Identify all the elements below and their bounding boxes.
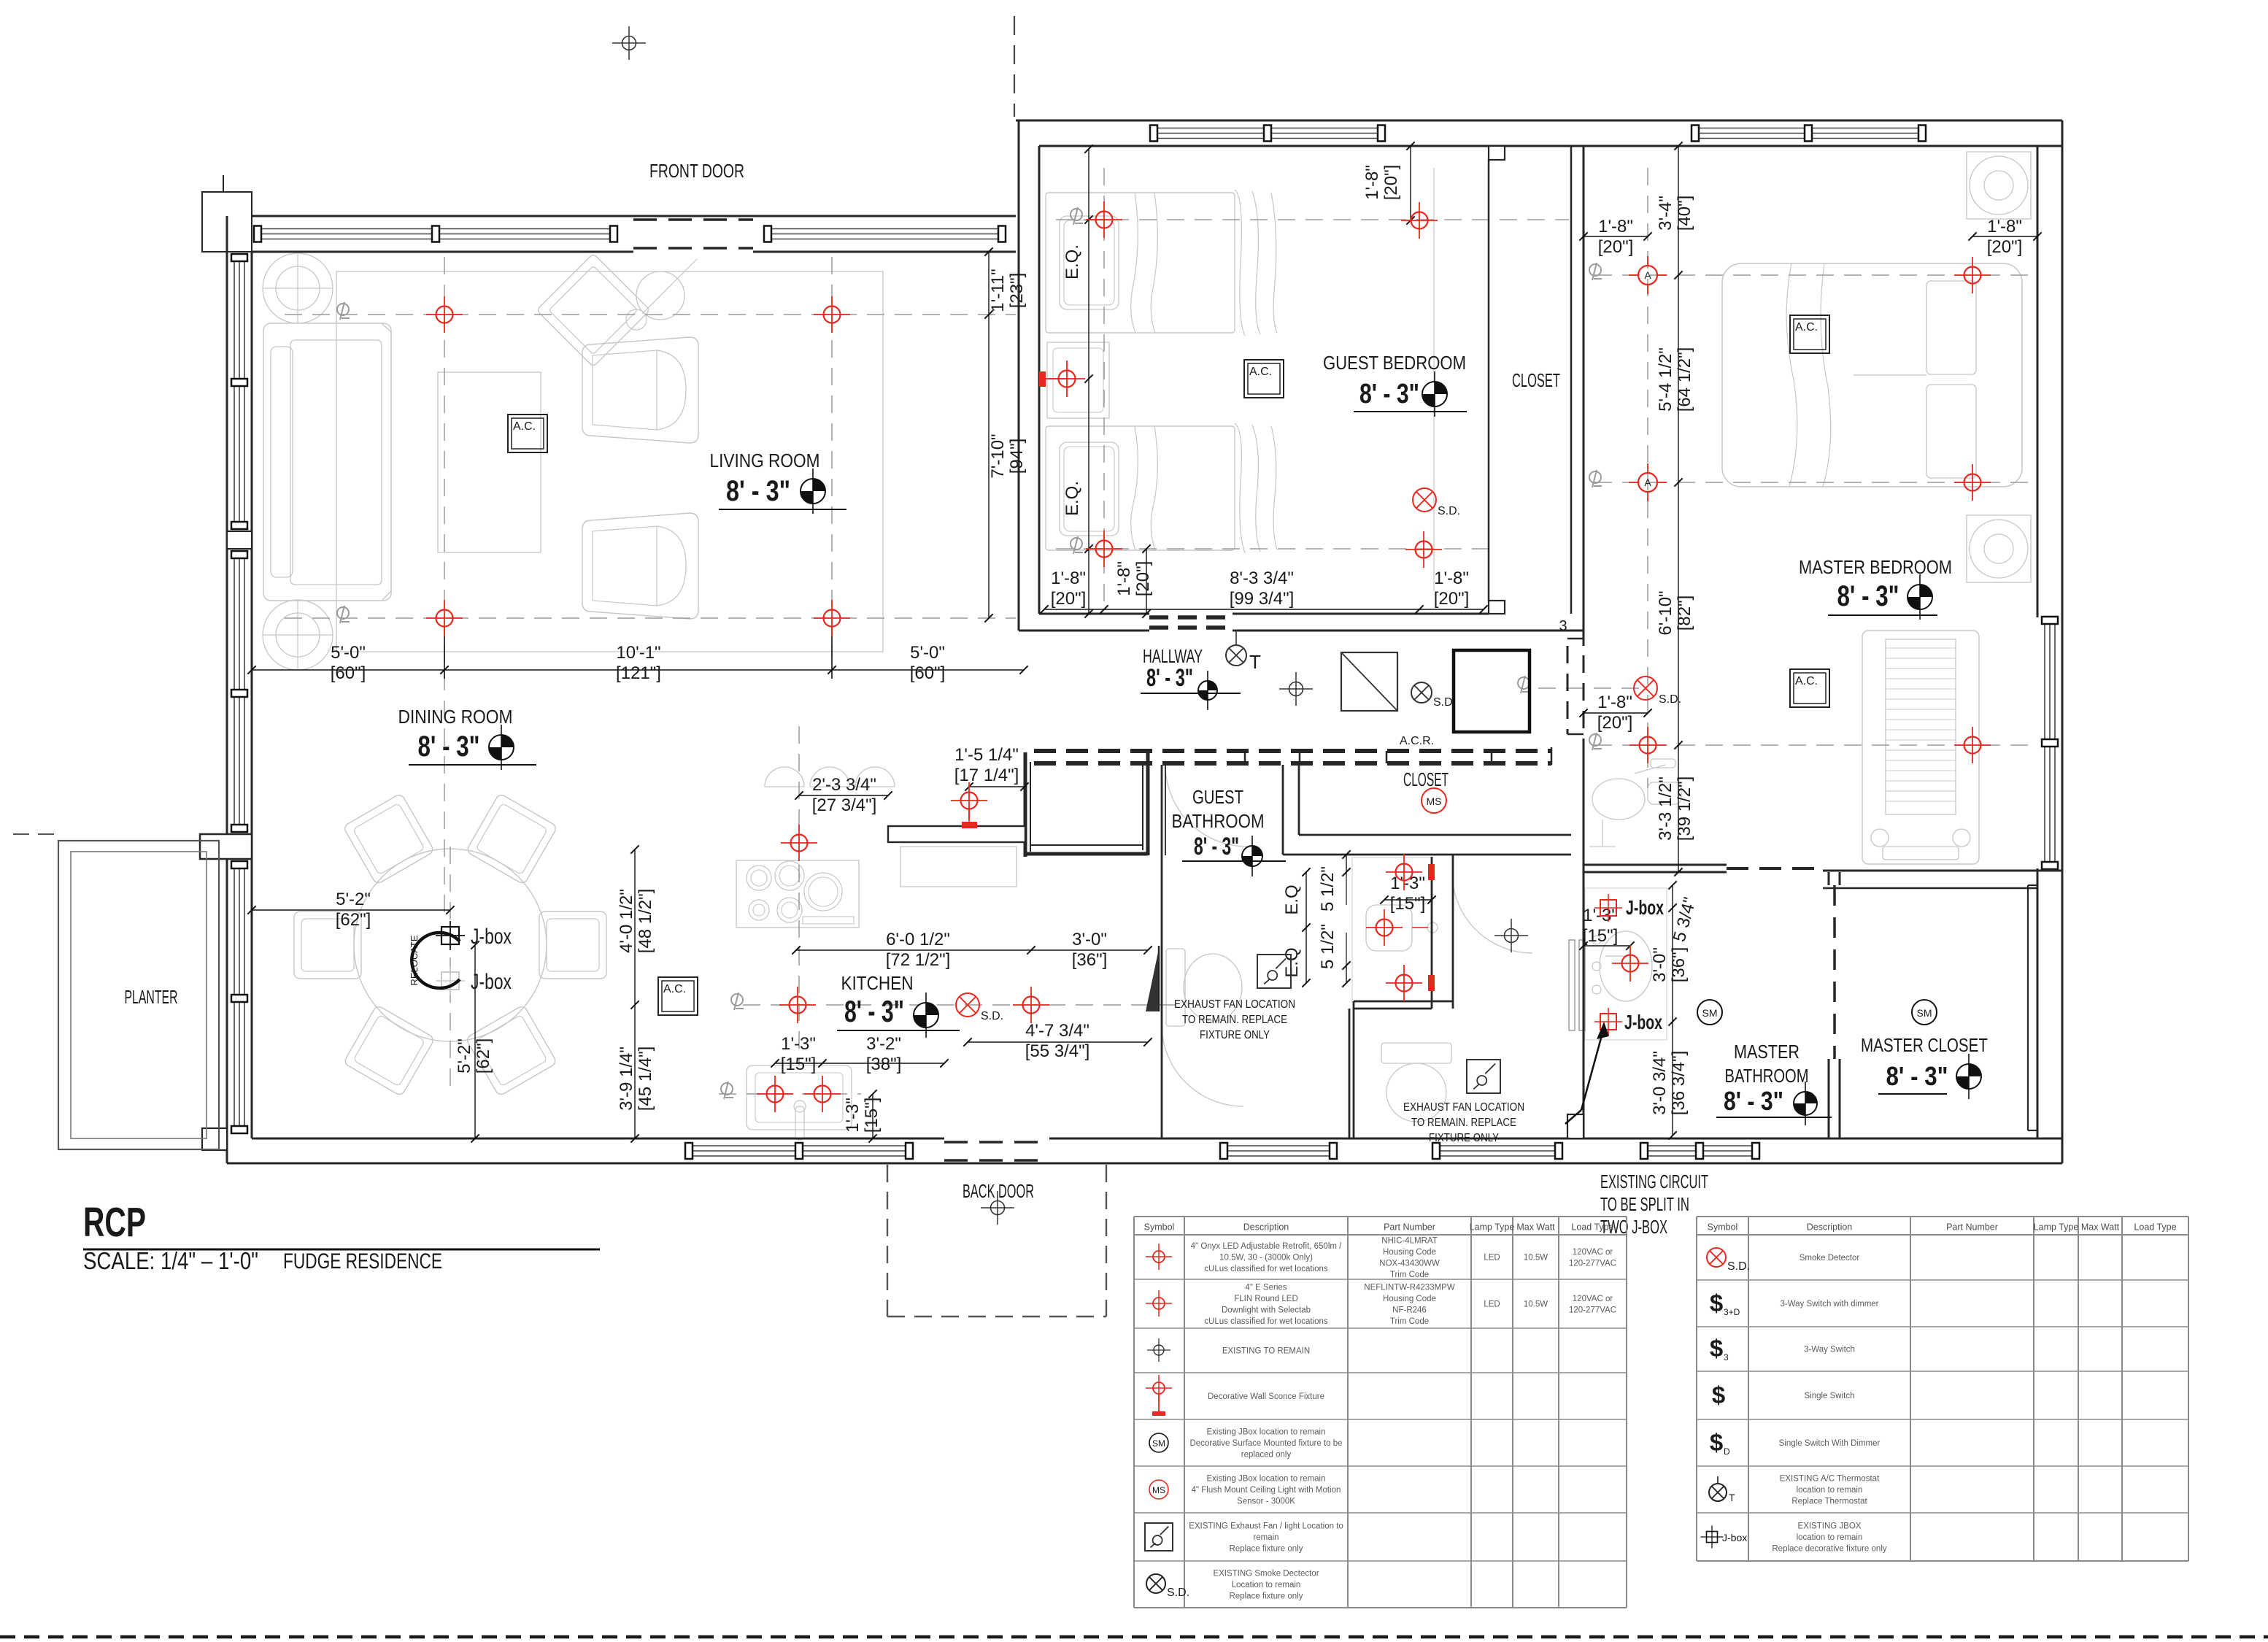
svg-text:Existing JBox location to rema: Existing JBox location to remain bbox=[1207, 1475, 1326, 1484]
svg-text:8' - 3": 8' - 3" bbox=[1886, 1061, 1948, 1091]
acr box bbox=[1341, 652, 1397, 711]
master bedroom south wall bbox=[1584, 864, 1727, 866]
guest vanity bbox=[1352, 857, 1432, 1002]
svg-text:MASTER: MASTER bbox=[1734, 1041, 1800, 1063]
left wall bbox=[226, 216, 228, 1163]
left wall pier bbox=[200, 834, 252, 859]
wall pier wc/master bath bbox=[1567, 1114, 1584, 1138]
guest bath vanity fixtures bbox=[1386, 854, 1422, 890]
svg-text:[82"]: [82"] bbox=[1675, 595, 1694, 631]
svg-text:Decorative Wall Sconce Fixture: Decorative Wall Sconce Fixture bbox=[1208, 1392, 1324, 1401]
window W2 front bbox=[765, 228, 1005, 230]
svg-text:PLANTER: PLANTER bbox=[125, 986, 178, 1008]
svg-text:replaced only: replaced only bbox=[1241, 1451, 1292, 1460]
svg-text:3'-0": 3'-0" bbox=[1650, 947, 1670, 982]
guest top right dim bbox=[1410, 146, 1411, 220]
svg-text:[62"]: [62"] bbox=[474, 1038, 493, 1074]
svg-text:Replace decorative fixture onl: Replace decorative fixture only bbox=[1772, 1545, 1886, 1554]
guest bed 2 bbox=[1046, 426, 1235, 550]
svg-text:[36"]: [36"] bbox=[1072, 950, 1108, 970]
guest bedroom east wall bbox=[1570, 146, 1573, 614]
master fixtures bbox=[1954, 257, 1991, 293]
svg-text:FRONT DOOR: FRONT DOOR bbox=[649, 160, 744, 182]
cooktop bbox=[736, 860, 859, 928]
svg-text:8' - 3": 8' - 3" bbox=[1146, 664, 1193, 692]
armchair 1 bbox=[582, 337, 698, 443]
window W8 left lower bbox=[234, 862, 235, 1133]
svg-text:MASTER BEDROOM: MASTER BEDROOM bbox=[1799, 556, 1952, 578]
svg-text:8' - 3": 8' - 3" bbox=[726, 475, 790, 507]
exhaust fan boxes bbox=[1257, 955, 1291, 988]
front door dashed opening bbox=[633, 218, 753, 220]
guest nightstand bbox=[1047, 342, 1109, 418]
hallway existing fixture bbox=[1279, 672, 1313, 706]
guest bath toilet bbox=[1166, 949, 1185, 1026]
planter bbox=[58, 841, 219, 1149]
svg-text:T: T bbox=[1729, 1492, 1735, 1503]
svg-text:[20"]: [20"] bbox=[1987, 237, 2023, 257]
svg-text:[45 1/4"]: [45 1/4"] bbox=[636, 1047, 655, 1111]
svg-text:3'-2": 3'-2" bbox=[866, 1034, 901, 1054]
svg-text:Trim Code: Trim Code bbox=[1390, 1271, 1429, 1279]
bottom wall bbox=[227, 1163, 2062, 1165]
svg-text:KITCHEN: KITCHEN bbox=[841, 972, 914, 994]
svg-text:MASTER CLOSET: MASTER CLOSET bbox=[1861, 1034, 1988, 1056]
kitchen alcove walls bbox=[1024, 752, 1027, 857]
svg-text:5'-0": 5'-0" bbox=[331, 643, 366, 663]
svg-text:5 1/2": 5 1/2" bbox=[1318, 866, 1338, 911]
svg-text:120-277VAC: 120-277VAC bbox=[1569, 1259, 1616, 1268]
window W12 bottom master bath bbox=[1641, 1145, 1759, 1146]
svg-text:8' - 3": 8' - 3" bbox=[844, 994, 904, 1028]
svg-text:[60"]: [60"] bbox=[331, 663, 366, 683]
svg-text:Load Type: Load Type bbox=[1571, 1222, 1613, 1233]
svg-text:1'-8": 1'-8" bbox=[1362, 165, 1382, 200]
svg-text:10'-1": 10'-1" bbox=[616, 643, 660, 663]
master bath closet door dashed bbox=[1833, 885, 1836, 1059]
svg-text:Max Watt: Max Watt bbox=[2081, 1222, 2120, 1233]
guest bathroom west wall bbox=[1161, 765, 1163, 1138]
svg-text:[20"]: [20"] bbox=[1051, 589, 1087, 609]
svg-text:EXHAUST FAN LOCATION: EXHAUST FAN LOCATION bbox=[1403, 1101, 1524, 1114]
dining J-box bbox=[436, 921, 465, 950]
svg-text:EXISTING TO REMAIN: EXISTING TO REMAIN bbox=[1222, 1347, 1310, 1356]
coffee table bbox=[438, 372, 541, 552]
svg-text:[20"]: [20"] bbox=[1598, 237, 1634, 257]
master bed bbox=[1722, 263, 2022, 487]
svg-text:1'-5 1/4": 1'-5 1/4" bbox=[954, 745, 1019, 765]
master bath dims bbox=[1584, 945, 1630, 947]
thermostat bbox=[1226, 645, 1246, 666]
svg-text:EXISTING Exhaust Fan / light L: EXISTING Exhaust Fan / light Location to bbox=[1189, 1522, 1343, 1531]
svg-text:E.Q.: E.Q. bbox=[1062, 244, 1082, 280]
fan circle bottom-left bbox=[263, 600, 333, 670]
svg-text:Description: Description bbox=[1807, 1222, 1853, 1233]
svg-text:Max Watt: Max Watt bbox=[1516, 1222, 1555, 1233]
svg-text:Part Number: Part Number bbox=[1384, 1222, 1435, 1233]
svg-text:1'-3": 1'-3" bbox=[843, 1098, 863, 1133]
guest bottom dim row bbox=[1044, 609, 1484, 610]
kitchen counter bar bbox=[888, 826, 1025, 842]
svg-text:TO REMAIN. REPLACE: TO REMAIN. REPLACE bbox=[1411, 1117, 1516, 1129]
svg-text:NF-R246: NF-R246 bbox=[1392, 1306, 1427, 1314]
fan circle top-left bbox=[263, 253, 333, 323]
svg-text:[38"]: [38"] bbox=[866, 1055, 902, 1074]
guest bed 1 bbox=[1046, 193, 1235, 333]
svg-text:Lamp Type: Lamp Type bbox=[2034, 1222, 2079, 1233]
svg-text:cULus classified for wet locat: cULus classified for wet locations bbox=[1204, 1265, 1328, 1273]
back door patio dashed bbox=[887, 1165, 888, 1317]
svg-text:[64 1/2"]: [64 1/2"] bbox=[1675, 347, 1694, 412]
CL living top row bbox=[285, 314, 1016, 315]
svg-text:3'-0": 3'-0" bbox=[1072, 930, 1107, 949]
svg-text:BATHROOM: BATHROOM bbox=[1725, 1065, 1809, 1087]
relocate arc bbox=[412, 933, 460, 988]
svg-text:GUEST: GUEST bbox=[1192, 786, 1243, 808]
svg-text:4" Flush Mount Ceiling Light w: 4" Flush Mount Ceiling Light with Motion bbox=[1192, 1486, 1341, 1495]
svg-text:Symbol: Symbol bbox=[1144, 1222, 1175, 1233]
master A fixtures bbox=[1629, 256, 1667, 294]
svg-text:Replace Thermostat: Replace Thermostat bbox=[1791, 1498, 1867, 1506]
wc toilet bbox=[1381, 1043, 1451, 1063]
t2 symbols bbox=[1707, 1248, 1750, 1273]
svg-text:3'-4": 3'-4" bbox=[1656, 196, 1675, 231]
guest bedroom fixtures bbox=[1086, 201, 1122, 238]
svg-text:NHIC-4LMRAT: NHIC-4LMRAT bbox=[1381, 1236, 1437, 1245]
svg-text:E.Q: E.Q bbox=[1282, 884, 1302, 914]
svg-text:$: $ bbox=[1710, 1429, 1723, 1456]
LR fixtures bbox=[426, 296, 463, 333]
svg-text:Location to remain: Location to remain bbox=[1232, 1581, 1301, 1589]
MS motion sensor bbox=[1422, 788, 1446, 813]
svg-text:3: 3 bbox=[1724, 1352, 1729, 1362]
hall-master door dashed bbox=[1567, 638, 1584, 640]
kitchen sconce bbox=[962, 822, 977, 828]
svg-text:4" E Series: 4" E Series bbox=[1245, 1283, 1287, 1292]
master closet interior wall bbox=[2027, 885, 2029, 1130]
svg-text:4" Onyx LED Adjustable Retrofi: 4" Onyx LED Adjustable Retrofit, 650lm / bbox=[1191, 1242, 1343, 1251]
svg-text:5'-2": 5'-2" bbox=[455, 1038, 474, 1074]
CL guest rows bbox=[1056, 219, 1569, 220]
svg-text:A: A bbox=[1644, 269, 1651, 281]
svg-text:TO BE SPLIT IN: TO BE SPLIT IN bbox=[1600, 1193, 1689, 1215]
svg-text:3'-9 1/4": 3'-9 1/4" bbox=[617, 1047, 636, 1111]
svg-text:[27 3/4"]: [27 3/4"] bbox=[812, 795, 877, 815]
guest closet partition bbox=[1488, 160, 1490, 601]
svg-text:EXISTING CIRCUIT: EXISTING CIRCUIT bbox=[1600, 1171, 1708, 1192]
nightstand top bbox=[1967, 152, 2031, 219]
svg-text:[62"]: [62"] bbox=[336, 910, 371, 930]
guest bedroom south wall bbox=[1019, 630, 1149, 632]
svg-text:A.C.: A.C. bbox=[513, 420, 536, 433]
svg-text:BACK DOOR: BACK DOOR bbox=[963, 1180, 1034, 1202]
svg-text:Single Switch: Single Switch bbox=[1804, 1392, 1854, 1400]
svg-text:[20"]: [20"] bbox=[1133, 561, 1153, 597]
kitchen dims bbox=[799, 795, 888, 796]
svg-text:Housing Code: Housing Code bbox=[1383, 1248, 1436, 1257]
svg-text:[36 3/4"]: [36 3/4"] bbox=[1669, 1051, 1689, 1116]
svg-text:GUEST BEDROOM: GUEST BEDROOM bbox=[1323, 352, 1466, 374]
svg-text:1'-3": 1'-3" bbox=[781, 1034, 816, 1054]
svg-text:1'-8": 1'-8" bbox=[1987, 217, 2022, 236]
svg-text:10.5W: 10.5W bbox=[1524, 1300, 1548, 1309]
svg-text:4'-7 3/4": 4'-7 3/4" bbox=[1025, 1021, 1089, 1041]
window W11 bottom bbox=[1433, 1145, 1562, 1146]
sofa bbox=[263, 323, 391, 601]
dining dims bbox=[252, 909, 450, 911]
svg-text:LED: LED bbox=[1484, 1300, 1500, 1309]
master bath fixture bbox=[1612, 945, 1648, 982]
svg-text:$: $ bbox=[1710, 1290, 1723, 1317]
svg-text:1'-8": 1'-8" bbox=[1114, 561, 1134, 596]
window W10 bottom bbox=[1221, 1145, 1336, 1146]
svg-text:Downlight with Selectab: Downlight with Selectab bbox=[1222, 1306, 1311, 1314]
svg-text:[48 1/2"]: [48 1/2"] bbox=[636, 889, 655, 954]
svg-text:T: T bbox=[1249, 651, 1261, 673]
svg-text:[55 3/4"]: [55 3/4"] bbox=[1025, 1041, 1090, 1061]
guest bath dims bbox=[1384, 899, 1432, 901]
treadmill bbox=[1862, 631, 1979, 864]
guest bath closet west wall bbox=[1282, 765, 1284, 855]
LR bottom dim row bbox=[252, 669, 1024, 671]
svg-text:[20"]: [20"] bbox=[1381, 165, 1401, 201]
guest bedroom door dashed bbox=[1149, 615, 1233, 620]
master west wall upper bbox=[1583, 146, 1585, 646]
left wall mid rail bbox=[227, 531, 252, 549]
svg-text:S.D.: S.D. bbox=[1167, 1587, 1189, 1599]
svg-text:8' - 3": 8' - 3" bbox=[1194, 833, 1239, 860]
guest bath closet south wall bbox=[1283, 854, 1571, 856]
svg-text:Load Type: Load Type bbox=[2134, 1222, 2176, 1233]
kitchen fixtures bbox=[781, 825, 817, 861]
svg-text:Symbol: Symbol bbox=[1708, 1222, 1738, 1233]
dining ghost J-box bbox=[436, 966, 465, 995]
svg-text:3-Way Switch with dimmer: 3-Way Switch with dimmer bbox=[1780, 1300, 1878, 1308]
exercise bike bbox=[1589, 759, 1681, 847]
hallway south double-dashed wall bbox=[1034, 749, 1551, 753]
svg-text:A.C.: A.C. bbox=[1249, 366, 1272, 378]
chaise diagonal bbox=[536, 253, 650, 367]
interior wall living/guest bbox=[1018, 120, 1020, 631]
svg-text:[99 3/4"]: [99 3/4"] bbox=[1230, 589, 1295, 609]
svg-text:Sensor - 3000K: Sensor - 3000K bbox=[1237, 1498, 1295, 1506]
svg-text:LED: LED bbox=[1484, 1254, 1500, 1263]
svg-text:1'-8": 1'-8" bbox=[1597, 693, 1632, 712]
guest EQ dim line bbox=[1088, 149, 1089, 614]
svg-text:[121"]: [121"] bbox=[616, 663, 661, 683]
back door existing fixture bbox=[981, 1191, 1014, 1225]
bottom-left pier bbox=[202, 1128, 227, 1150]
svg-text:J-box: J-box bbox=[1626, 896, 1664, 919]
window W3 guest bedroom bbox=[1151, 128, 1384, 129]
svg-text:location to remain: location to remain bbox=[1797, 1486, 1863, 1495]
CL master rows bbox=[1594, 274, 2029, 276]
svg-text:Part Number: Part Number bbox=[1946, 1222, 1998, 1233]
right wall bbox=[2061, 120, 2064, 1163]
svg-text:Single Switch With Dimmer: Single Switch With Dimmer bbox=[1779, 1439, 1881, 1448]
nightstand bottom bbox=[1967, 515, 2031, 582]
svg-text:EXISTING JBOX: EXISTING JBOX bbox=[1798, 1522, 1862, 1531]
svg-text:1'-11": 1'-11" bbox=[988, 269, 1008, 312]
door arcs bbox=[1162, 1025, 1243, 1106]
svg-text:8'-3 3/4": 8'-3 3/4" bbox=[1230, 568, 1294, 588]
svg-text:10.5W: 10.5W bbox=[1524, 1254, 1548, 1263]
svg-text:J-box: J-box bbox=[471, 925, 512, 949]
svg-text:7'-10": 7'-10" bbox=[988, 433, 1008, 478]
svg-text:NOX-43430WW: NOX-43430WW bbox=[1379, 1259, 1440, 1268]
svg-text:SM: SM bbox=[1152, 1438, 1165, 1449]
svg-text:120VAC or: 120VAC or bbox=[1573, 1295, 1613, 1303]
svg-text:3'-0 3/4": 3'-0 3/4" bbox=[1650, 1051, 1670, 1115]
svg-text:120VAC or: 120VAC or bbox=[1573, 1248, 1613, 1257]
svg-text:location to remain: location to remain bbox=[1797, 1533, 1863, 1542]
svg-text:A: A bbox=[1644, 477, 1651, 488]
master bath J-boxes bbox=[1594, 894, 1622, 922]
svg-text:FLIN Round LED: FLIN Round LED bbox=[1234, 1295, 1298, 1303]
svg-text:Replace fixture only: Replace fixture only bbox=[1230, 1592, 1303, 1601]
svg-text:1'-8": 1'-8" bbox=[1051, 568, 1086, 588]
svg-text:[15"]: [15"] bbox=[862, 1098, 882, 1133]
window W6 left upper bbox=[234, 255, 235, 528]
t1 symbols bbox=[1146, 1244, 1172, 1270]
svg-text:[36"]: [36"] bbox=[1669, 947, 1689, 983]
svg-text:1'-3": 1'-3" bbox=[1390, 874, 1425, 893]
svg-text:A.C.: A.C. bbox=[1795, 321, 1818, 334]
svg-text:3+D: 3+D bbox=[1724, 1307, 1740, 1317]
svg-text:5'-0": 5'-0" bbox=[910, 643, 945, 663]
CL kitchen row bbox=[743, 1004, 1179, 1006]
svg-text:1'-8": 1'-8" bbox=[1598, 217, 1633, 236]
svg-text:[15"]: [15"] bbox=[1390, 894, 1426, 914]
CL sink row bbox=[719, 1093, 861, 1095]
svg-text:S.D.: S.D. bbox=[1438, 505, 1460, 517]
armchair 2 bbox=[582, 513, 698, 619]
CL living bottom row bbox=[285, 617, 1016, 619]
svg-text:Description: Description bbox=[1243, 1222, 1289, 1233]
master SD bbox=[1634, 677, 1681, 706]
svg-text:FIXTURE ONLY: FIXTURE ONLY bbox=[1200, 1029, 1270, 1041]
svg-text:BATHROOM: BATHROOM bbox=[1172, 810, 1265, 832]
kitchen island bbox=[900, 847, 1017, 887]
svg-text:8' - 3": 8' - 3" bbox=[1724, 1086, 1783, 1116]
svg-text:6'-10": 6'-10" bbox=[1656, 590, 1675, 635]
svg-text:[15"]: [15"] bbox=[1583, 926, 1619, 946]
svg-text:2'-3 3/4": 2'-3 3/4" bbox=[812, 775, 876, 795]
svg-text:120-277VAC: 120-277VAC bbox=[1569, 1306, 1616, 1314]
svg-text:SM: SM bbox=[1917, 1007, 1932, 1019]
svg-text:remain: remain bbox=[1253, 1533, 1278, 1542]
svg-text:8' - 3": 8' - 3" bbox=[1837, 580, 1899, 612]
guest SD bbox=[1413, 488, 1460, 517]
svg-text:Trim Code: Trim Code bbox=[1390, 1317, 1429, 1326]
master hallway dim bbox=[1584, 712, 1648, 714]
SM symbols bbox=[1697, 1000, 1722, 1025]
page bottom dashed line bbox=[0, 1635, 2268, 1639]
AC boxes bbox=[508, 415, 547, 452]
svg-text:cULus classified for wet locat: cULus classified for wet locations bbox=[1204, 1317, 1328, 1326]
svg-text:6'-0 1/2": 6'-0 1/2" bbox=[886, 930, 950, 949]
svg-text:SCALE: 1/4" – 1'-0": SCALE: 1/4" – 1'-0" bbox=[83, 1247, 258, 1274]
svg-text:5 1/2": 5 1/2" bbox=[1318, 924, 1338, 969]
svg-text:Replace fixture only: Replace fixture only bbox=[1230, 1545, 1303, 1554]
door wedge kitchen-guest bath bbox=[1146, 949, 1159, 1011]
master vertical dim bbox=[1678, 146, 1679, 872]
legend table 2 bbox=[1697, 1216, 2188, 1217]
svg-text:EXISTING Smoke Dectector: EXISTING Smoke Dectector bbox=[1213, 1570, 1319, 1579]
svg-text:FIXTURE ONLY: FIXTURE ONLY bbox=[1429, 1132, 1499, 1144]
svg-text:J-box: J-box bbox=[1722, 1532, 1747, 1543]
svg-text:8' - 3": 8' - 3" bbox=[418, 731, 480, 763]
top existing fixture bbox=[612, 26, 646, 60]
master right dim bbox=[1972, 236, 2037, 237]
LR vertical dim bbox=[988, 252, 990, 618]
svg-text:[17 1/4"]: [17 1/4"] bbox=[954, 766, 1019, 785]
svg-text:[60"]: [60"] bbox=[910, 663, 946, 683]
svg-text:A.C.: A.C. bbox=[663, 983, 686, 995]
svg-text:[39 1/2"]: [39 1/2"] bbox=[1675, 776, 1694, 841]
svg-text:$: $ bbox=[1710, 1335, 1723, 1362]
svg-text:[40"]: [40"] bbox=[1675, 196, 1694, 231]
window W4 master bedroom bbox=[1692, 128, 1925, 129]
svg-text:J-box: J-box bbox=[471, 970, 512, 994]
kitchen sink bbox=[747, 1065, 852, 1130]
svg-text:RCP: RCP bbox=[83, 1199, 146, 1246]
svg-text:CLOSET: CLOSET bbox=[1403, 768, 1449, 790]
existing circuit arrow bbox=[1581, 1028, 1604, 1110]
svg-text:3: 3 bbox=[1559, 618, 1567, 634]
svg-text:E.Q.: E.Q. bbox=[1062, 481, 1082, 516]
window W5 right bbox=[2044, 617, 2045, 868]
svg-text:FUDGE RESIDENCE: FUDGE RESIDENCE bbox=[283, 1249, 442, 1273]
svg-text:Lamp Type: Lamp Type bbox=[1470, 1222, 1515, 1233]
svg-text:[23"]: [23"] bbox=[1007, 273, 1027, 309]
vanity east wall bbox=[1431, 857, 1433, 1009]
svg-text:A.C.R.: A.C.R. bbox=[1400, 735, 1434, 747]
property dashed line top bbox=[1014, 16, 1015, 117]
svg-text:S.D.: S.D. bbox=[1433, 696, 1456, 709]
svg-text:Housing Code: Housing Code bbox=[1383, 1295, 1436, 1303]
top wall living wing bbox=[227, 215, 1016, 217]
legend table 1 bbox=[1134, 1216, 1627, 1217]
svg-text:Existing JBox location to rema: Existing JBox location to remain bbox=[1207, 1428, 1326, 1437]
window W1 front bbox=[255, 228, 617, 230]
svg-text:S.D.: S.D. bbox=[981, 1010, 1003, 1022]
svg-text:Smoke Detector: Smoke Detector bbox=[1800, 1254, 1860, 1263]
window W7 left mid bbox=[234, 552, 235, 831]
master bedroom door dashed bbox=[1727, 867, 1823, 870]
svg-text:1'-8": 1'-8" bbox=[1434, 568, 1469, 588]
svg-text:D: D bbox=[1724, 1446, 1730, 1457]
svg-text:[20"]: [20"] bbox=[1597, 713, 1633, 733]
svg-text:[15"]: [15"] bbox=[781, 1055, 817, 1074]
svg-text:CLOSET: CLOSET bbox=[1512, 369, 1560, 391]
svg-text:5'-2": 5'-2" bbox=[336, 890, 371, 909]
dining table bbox=[354, 849, 547, 1041]
guest wall sconce bbox=[1039, 371, 1046, 387]
svg-text:5'-4 1/2": 5'-4 1/2" bbox=[1656, 347, 1675, 412]
master vanity bbox=[1585, 888, 1667, 1040]
svg-text:S.D.: S.D. bbox=[1659, 693, 1681, 706]
top wall guest wing bbox=[1016, 120, 2062, 122]
svg-text:DINING ROOM: DINING ROOM bbox=[398, 706, 513, 728]
svg-text:MS: MS bbox=[1152, 1485, 1165, 1495]
svg-text:J-box: J-box bbox=[1624, 1011, 1662, 1033]
master bath / closet wall bbox=[1828, 872, 1830, 885]
top-left corner pier bbox=[202, 192, 252, 252]
svg-text:LIVING ROOM: LIVING ROOM bbox=[710, 450, 820, 471]
vanity south wall / wc north bbox=[1354, 1001, 1453, 1003]
svg-text:MS: MS bbox=[1427, 795, 1442, 807]
